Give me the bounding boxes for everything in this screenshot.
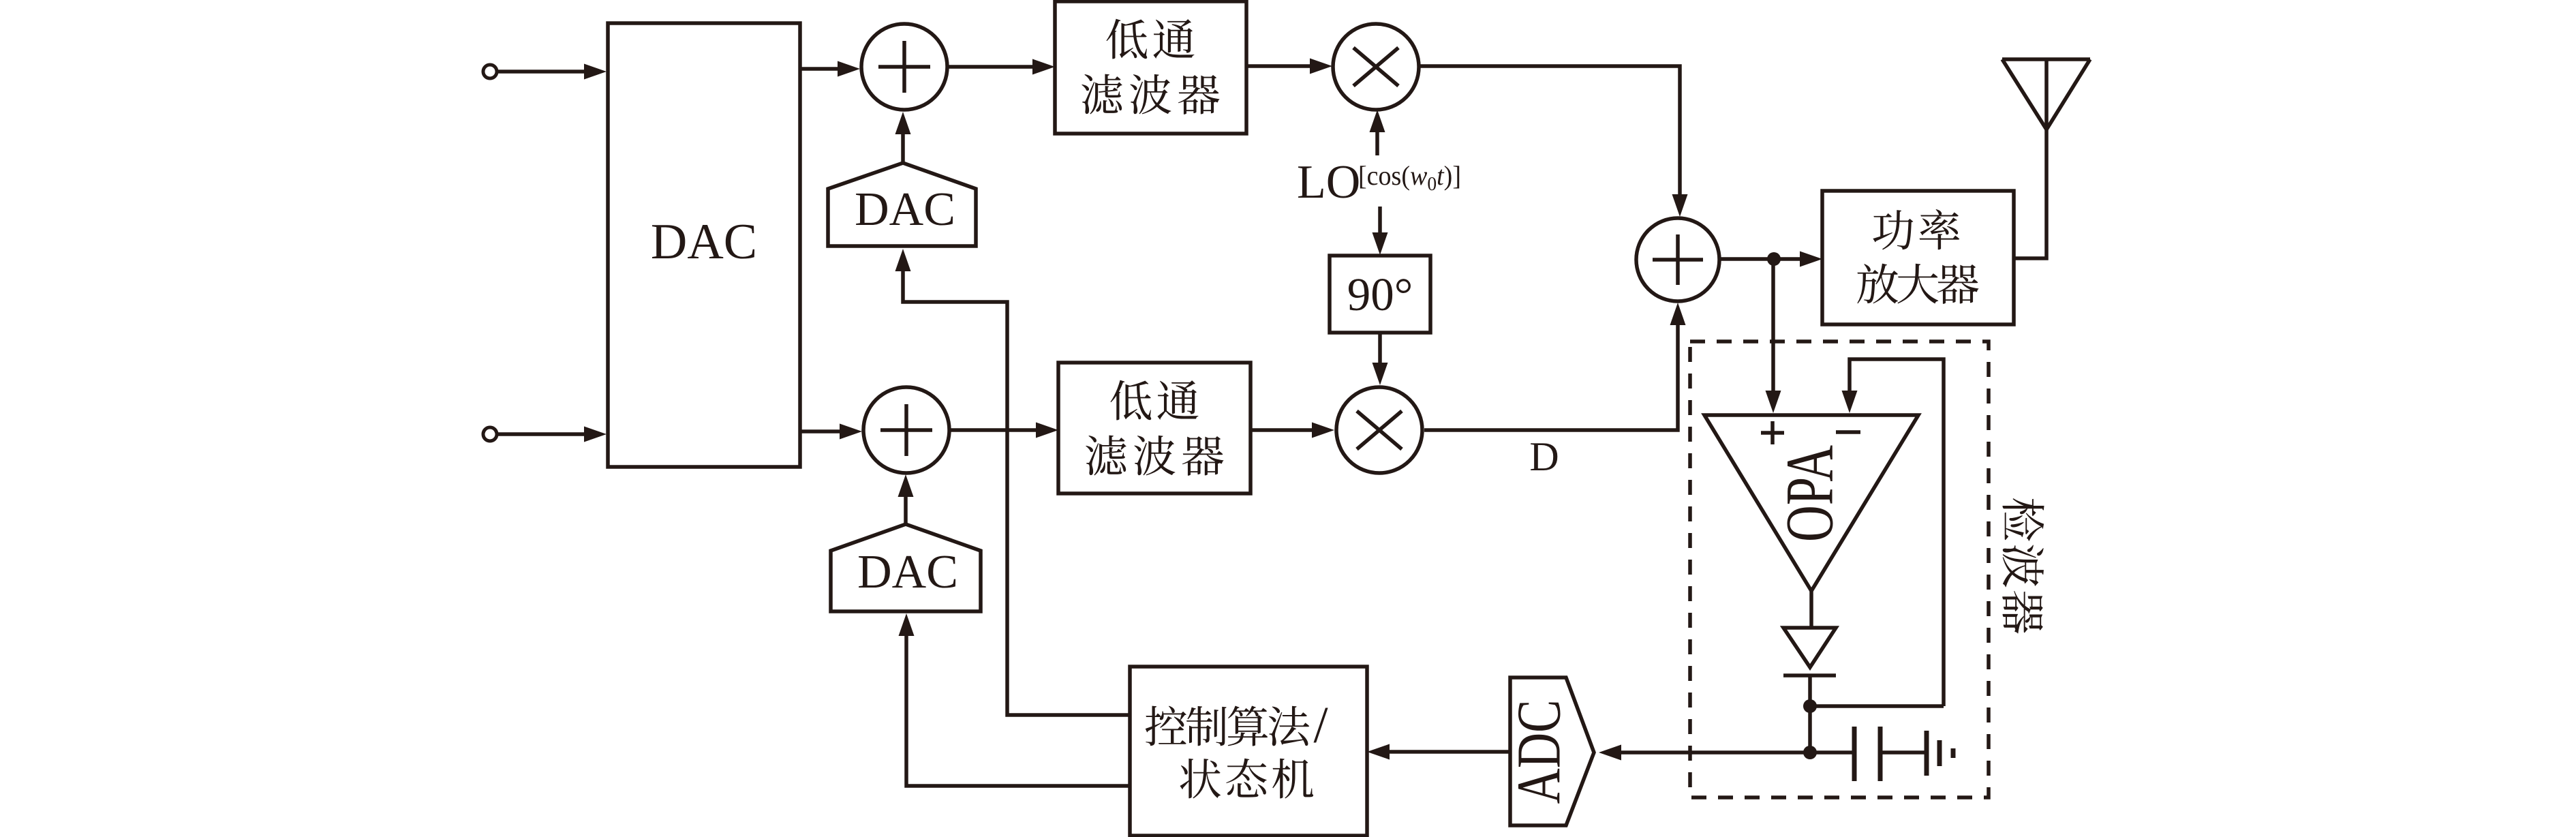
wire power amplifier to antenna: [2014, 130, 2046, 258]
wire summer 2 to lowpass filter 2: [951, 423, 1058, 438]
svg-text:/: /: [1313, 697, 1328, 754]
summer 1 (I-path adder): [861, 24, 947, 110]
mixer 1 (I upconversion): [1333, 24, 1419, 110]
svg-text:DAC: DAC: [651, 214, 757, 270]
wire LO to 90-degree phase shifter: [1373, 207, 1388, 255]
wire offset DAC 2 to summer 2: [898, 474, 914, 524]
summer 2 (Q-path adder): [863, 387, 949, 473]
wire ADC to control block: [1367, 744, 1510, 760]
svg-text:D: D: [1529, 434, 1559, 479]
svg-text:[cos(w0t)]: [cos(w0t)]: [1358, 160, 1461, 195]
wire control block to offset DAC 2: [899, 613, 1131, 786]
wire input1 to DAC: [497, 64, 607, 80]
wire diode to junction nodes: [1808, 675, 1812, 752]
svg-text:LO: LO: [1297, 156, 1360, 209]
wire lowpass filter 2 to mixer 2: [1251, 423, 1334, 438]
wire node to capacitor: [1810, 750, 1853, 755]
LO label LO[cos(w0t)]: [1297, 156, 1461, 209]
lowpass filter 2 (低通滤波器): [1058, 363, 1251, 493]
wire offset DAC 1 to summer 1: [895, 112, 911, 163]
DAC main block: [608, 23, 800, 467]
wire detector output to ADC: [1599, 745, 1810, 761]
detector dashed box: [1690, 341, 1989, 797]
control algorithm / state machine block: [1130, 667, 1367, 836]
wire mixer 1 to RF summer: [1420, 66, 1688, 217]
wire PA input tap down to OPA + input: [1766, 259, 1781, 413]
power amplifier (功率放大器): [1822, 191, 2014, 324]
wire lowpass filter 1 to mixer 1: [1246, 59, 1332, 74]
wire OPA output to diode: [1809, 591, 1813, 628]
svg-text:ADC: ADC: [1505, 700, 1574, 804]
offset DAC 1 (pentagon): [828, 163, 976, 246]
op-amp OPA: [1704, 415, 1918, 591]
diode D1: [1783, 628, 1836, 675]
wire control block to offset DAC 1: [895, 249, 1131, 715]
wire phase shifter to mixer 2: [1373, 333, 1388, 385]
RF summer (combiner): [1636, 218, 1719, 301]
junction node (detector output): [1803, 746, 1817, 759]
svg-text:OPA: OPA: [1772, 445, 1847, 542]
wire RF summer to power amplifier: [1721, 252, 1822, 267]
detector label (检波器, rotated): [2002, 498, 2044, 633]
junction node at PA input: [1767, 252, 1781, 266]
svg-text:DAC: DAC: [857, 546, 958, 598]
wire input2 to DAC: [497, 427, 607, 442]
wire DAC to summer 2: [800, 424, 862, 440]
mixer 2 (Q upconversion): [1336, 387, 1422, 473]
capacitor C1: [1854, 727, 1927, 781]
input terminal 1 (I data in): [483, 65, 497, 78]
90-degree phase shifter: [1330, 256, 1430, 333]
wire DAC to summer 1: [800, 61, 860, 77]
wire LO to mixer 1: [1370, 110, 1385, 155]
ADC block: [1505, 678, 1595, 825]
offset DAC 2 (pentagon): [831, 524, 981, 611]
wire mixer 2 to RF summer (node D): [1424, 303, 1686, 430]
wire summer 1 to lowpass filter 1: [949, 59, 1055, 75]
wire junction to feedback riser: [1810, 704, 1944, 708]
node label D: [1529, 434, 1559, 479]
junction node (feedback tap): [1803, 699, 1817, 713]
lowpass filter 1 (低通滤波器): [1055, 1, 1246, 134]
ground: [1927, 731, 1953, 776]
antenna: [2002, 59, 2090, 130]
svg-text:90°: 90°: [1347, 269, 1413, 320]
feedback wire to OPA - input: [1842, 359, 1944, 706]
input terminal 2 (Q data in): [483, 427, 497, 441]
svg-text:DAC: DAC: [855, 183, 955, 236]
